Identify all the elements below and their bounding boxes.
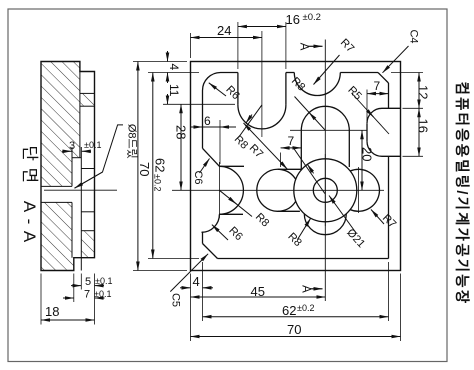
svg-text:R8: R8 (253, 211, 271, 229)
extension notch left up (366, 90, 368, 122)
svg-text:R7: R7 (338, 37, 356, 55)
dome top arc R8 (301, 106, 349, 130)
circle D8 drill (313, 178, 337, 202)
section view hatch bottom strip (41, 258, 74, 271)
tangent stub lower (219, 213, 243, 215)
centerline left R8 vertical (218, 162, 220, 218)
section inner vertical x=72 lower (71, 202, 73, 257)
section ledge y=106.2 (80, 105, 95, 107)
svg-text:20: 20 (360, 147, 375, 161)
svg-text:45: 45 (251, 284, 265, 299)
section view hatch right small band (80, 93, 95, 106)
section cutting line A-A vertical (324, 40, 326, 302)
section view hatch top block (41, 62, 80, 158)
svg-text:컴퓨터응용밀링/기계가공기능장: 컴퓨터응용밀링/기계가공기능장 (453, 82, 471, 306)
dimension 12 right (418, 73, 420, 109)
extension left edge down (190, 274, 192, 342)
dome wall right (348, 130, 350, 167)
dimension 7±0.1 line (63, 297, 74, 299)
svg-text:±0.1: ±0.1 (94, 289, 111, 299)
svg-text:11: 11 (167, 84, 181, 97)
svg-text:R7: R7 (247, 142, 265, 160)
leader R7 top (314, 55, 340, 85)
centerline flower horizontal (172, 189, 384, 191)
svg-text:6: 6 (204, 114, 211, 128)
slot bottom arc R8 (238, 105, 286, 129)
profile top edge segment 3 (340, 72, 378, 74)
svg-text:R7: R7 (380, 212, 398, 230)
svg-text:7: 7 (374, 79, 381, 93)
extension profile top right (391, 72, 423, 74)
section outline (41, 62, 95, 271)
svg-text:±0.2: ±0.2 (303, 12, 321, 23)
section view hatch lower block (41, 202, 72, 257)
dimension 16±0.2 top (238, 26, 286, 28)
dimension 24 top (191, 37, 262, 39)
leader R8-R7 shared (244, 123, 288, 169)
svg-text:62: 62 (153, 158, 168, 172)
profile right edge upper (388, 83, 390, 108)
right notch fillet R5 top (367, 108, 382, 123)
svg-text:±0.1: ±0.1 (84, 140, 101, 150)
profile top edge segment 1 (221, 72, 238, 74)
dimension 6 line (190, 126, 236, 128)
centerline dome horizontal (290, 129, 367, 131)
leader R5 (352, 93, 390, 134)
profile bottom edge (218, 258, 389, 260)
chamfer C6 (203, 148, 220, 166)
extension square bottom left (133, 270, 187, 272)
extension square top left (133, 61, 187, 63)
extension lines section bottom (40, 274, 42, 325)
right notch top edge (382, 107, 401, 109)
section drill hole bottom edge (41, 201, 72, 203)
dimension 5±0.1 line (71, 285, 81, 287)
lobe tangent bottom (278, 210, 300, 212)
leader R8 flower upper-left (294, 149, 325, 194)
extension line square top up (24 dim) (190, 33, 192, 58)
dimension 62±0.2 bottom (203, 316, 389, 318)
svg-text:4: 4 (167, 64, 181, 71)
tangent stub upper (219, 165, 244, 167)
profile left edge lower (202, 232, 204, 244)
dimension 18 line (41, 319, 95, 321)
dome wall left (300, 130, 302, 170)
dimension 11 left arrow (167, 94, 169, 104)
section ledge y=230.7 (81, 230, 94, 232)
svg-text:±0.2: ±0.2 (297, 303, 314, 313)
section ledge y=211.8 (81, 211, 94, 213)
chamfer C5 (203, 244, 218, 259)
extension line y=104.3 left (163, 103, 235, 105)
svg-text:24: 24 (217, 23, 231, 38)
svg-text:C4: C4 (408, 29, 420, 43)
svg-text:A: A (298, 43, 310, 51)
dimension 4 left arrows (167, 51, 169, 62)
svg-text:18: 18 (45, 304, 59, 319)
extension notch top right (403, 107, 424, 109)
right lobe arc R7 (350, 169, 379, 211)
svg-text:C5: C5 (170, 293, 182, 307)
dimension 16 right (418, 108, 420, 156)
extension slot right wall up (285, 22, 287, 69)
svg-text:28: 28 (174, 125, 189, 139)
svg-text:±0.2: ±0.2 (153, 174, 163, 191)
corner R6 top-left (203, 73, 221, 91)
svg-text:7: 7 (84, 289, 90, 301)
centerline right lobe vertical (357, 167, 359, 213)
profile top edge segment 2 (286, 72, 294, 74)
svg-text:R8: R8 (289, 75, 307, 93)
svg-text:3: 3 (69, 140, 75, 152)
extension profile right down (388, 262, 390, 321)
left lobe arc R7 (257, 169, 296, 211)
slot right wall (285, 73, 287, 105)
svg-text:Ø8드맀: Ø8드맀 (126, 124, 139, 159)
leader C5 (170, 254, 208, 292)
extension profile bottom left (148, 258, 199, 260)
svg-text:70: 70 (287, 322, 301, 337)
centerline slot vertical (261, 31, 263, 137)
svg-text:70: 70 (137, 162, 152, 176)
section step shoulder y=157.7 (72, 157, 81, 159)
extension profile left down (202, 262, 204, 321)
dimension 3±0.1 arrows (62, 150, 72, 152)
svg-text:62: 62 (282, 303, 296, 318)
svg-text:±0.1: ±0.1 (95, 276, 112, 286)
profile left edge upper (202, 91, 204, 149)
section view hatch right lower band (81, 231, 94, 258)
section inner vertical step x=79.9 (79, 72, 81, 158)
svg-text:Ø21: Ø21 (344, 227, 367, 250)
top notch arc R8 (294, 73, 340, 96)
svg-text:R6: R6 (226, 225, 244, 243)
svg-text:R5: R5 (345, 84, 363, 102)
section ledge y=168.5 (81, 168, 94, 170)
arc R6 concave left (202, 214, 220, 232)
profile right edge lower (388, 156, 390, 258)
leader R6 top-left (209, 83, 226, 96)
leader D8 drill polyline (75, 125, 124, 188)
section arrow A bottom (310, 288, 323, 290)
centerline flower vertical tick (324, 154, 326, 226)
extension square right down (400, 274, 402, 342)
drill centerline in section (44, 189, 117, 191)
svg-text:단면 A-A: 단면 A-A (20, 145, 39, 248)
lobe-dome tangent top (278, 168, 302, 170)
leader R7 bottom-right (371, 210, 384, 225)
arc R8 left semicircle (219, 166, 243, 214)
extension x=280.6 (280, 153, 282, 168)
section view hatch mid block (41, 158, 72, 187)
leader R8 bottom-left (298, 218, 311, 239)
leader R8 slot radius (239, 105, 262, 138)
chamfer C4 (378, 73, 389, 84)
leader R6 concave (212, 225, 228, 240)
circle D21 (294, 159, 357, 222)
section arrow A top (308, 45, 323, 47)
svg-text:4: 4 (193, 274, 200, 289)
section inner vertical x=81.3 (80, 147, 82, 271)
main square outline 70x70 (191, 62, 401, 271)
bottom lobe arc R7 (304, 214, 346, 235)
svg-text:A: A (300, 285, 312, 293)
leader R8 left semicircle (219, 190, 252, 216)
dimension 28 left (180, 104, 182, 190)
dimension 4 bottom-left arrows (180, 287, 191, 289)
leader C6 (200, 159, 210, 174)
svg-text:7: 7 (288, 134, 295, 148)
dimension 70 left (137, 62, 139, 271)
svg-text:16: 16 (416, 119, 431, 133)
leader D21 (329, 196, 357, 234)
section drill hole top edge (41, 185, 72, 187)
extension x=220 for 6 dim (219, 120, 221, 164)
dimension 7 center (281, 147, 302, 149)
extension profile top left (148, 72, 199, 74)
leader R8 dome (295, 97, 326, 131)
slot left wall (237, 73, 239, 105)
svg-text:R6: R6 (223, 84, 241, 102)
extension notch bottom right (403, 155, 424, 157)
svg-text:12: 12 (416, 85, 431, 99)
leader C4 (383, 46, 409, 73)
dimension 45 bottom (191, 296, 326, 298)
svg-text:C6: C6 (192, 170, 204, 184)
dimension 20 right (361, 130, 363, 190)
dimension 7 notch (367, 93, 389, 95)
extension slot left wall up (237, 22, 239, 69)
right notch left edge (366, 123, 368, 141)
dimension 70 bottom (191, 336, 401, 338)
section inner vertical x=72 upper (71, 147, 73, 186)
right notch bottom edge (382, 155, 401, 157)
svg-text:5: 5 (85, 276, 91, 288)
right notch fillet R5 bottom (367, 141, 382, 156)
dimension 62±0.2 left (152, 73, 154, 259)
section ledge y=93.4 (80, 92, 95, 94)
svg-text:16: 16 (286, 12, 300, 27)
